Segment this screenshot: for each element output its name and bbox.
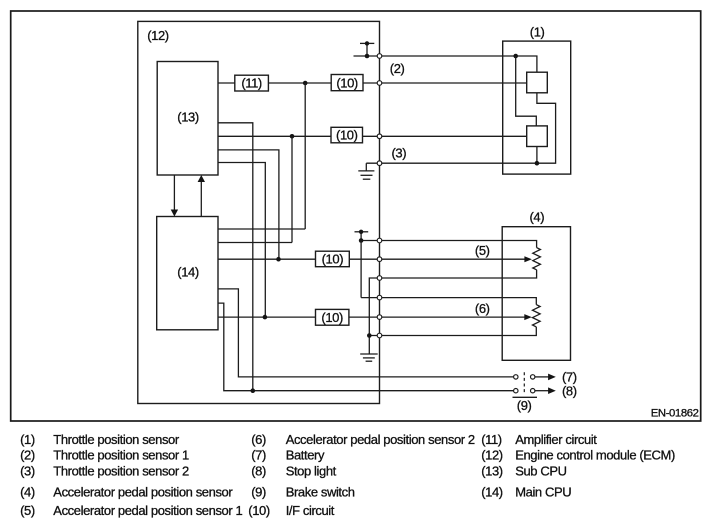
wire U14 to brake switch stoplight side — [218, 303, 514, 391]
wire U13 pin2 to stoplight net — [218, 123, 253, 391]
legend column 3 — [481, 432, 675, 499]
wire I/F d to pot2 wiper — [349, 314, 532, 320]
label (10) b — [336, 128, 358, 143]
svg-text:(13): (13) — [481, 464, 503, 479]
label (9) — [517, 398, 532, 413]
wire U13 pin3 to I/F b — [218, 135, 331, 137]
figure number EN-01862 — [651, 407, 699, 419]
svg-text:(12): (12) — [481, 448, 503, 463]
battery feed top wire — [354, 56, 537, 72]
wire junction down to U14 pin — [218, 83, 305, 229]
svg-text:(5): (5) — [475, 243, 490, 258]
svg-text:Throttle position sensor 1: Throttle position sensor 1 — [53, 448, 189, 463]
wire U13 pin5 down to I/F d net — [218, 163, 265, 318]
svg-text:(1): (1) — [20, 432, 35, 447]
battery feed lower wire — [361, 241, 536, 248]
svg-text:Engine control module (ECM): Engine control module (ECM) — [515, 448, 675, 463]
svg-text:I/F circuit: I/F circuit — [286, 503, 335, 518]
label (10) d — [321, 310, 343, 325]
node junction U13 pin3 / U14 — [290, 134, 295, 139]
label (10) a — [336, 75, 358, 90]
wire amplifier to I/F 1 — [268, 82, 331, 84]
ground symbol lower — [360, 354, 378, 361]
svg-text:(10): (10) — [336, 128, 358, 143]
svg-text:(12): (12) — [147, 28, 169, 43]
svg-text:(2): (2) — [20, 448, 35, 463]
node junction U13 net / wiper1 — [276, 257, 281, 262]
node junction amp/U14 — [303, 81, 308, 86]
brake switch underline — [513, 396, 538, 398]
node sensor1 ground — [535, 161, 540, 166]
I/F circuit U10c box — [316, 251, 350, 267]
svg-text:Throttle position sensor 2: Throttle position sensor 2 — [53, 464, 189, 479]
svg-text:(9): (9) — [517, 398, 532, 413]
amplifier circuit U11 box — [235, 75, 269, 91]
wire to stop light arrow — [535, 387, 556, 394]
svg-text:(14): (14) — [481, 485, 503, 500]
label (2) — [390, 61, 405, 76]
sub CPU U13 box — [157, 62, 218, 176]
outer border frame — [11, 11, 701, 421]
wire pot2 bottom to ground — [369, 327, 536, 336]
ECM connector pins upper — [377, 54, 382, 166]
wire element2 bottom to ground node — [536, 147, 538, 164]
wire U14 to I/F d — [218, 316, 316, 318]
potentiometer R1 zigzag — [533, 248, 541, 270]
label (5) — [475, 243, 490, 258]
wire U13 pin1 to amplifier — [218, 82, 235, 84]
wire I/F c to pot1 wiper — [349, 256, 532, 262]
label (10) c — [322, 252, 344, 267]
svg-text:Accelerator pedal position sen: Accelerator pedal position sensor 2 — [286, 432, 475, 447]
legend column 2 — [248, 432, 475, 518]
label (4) — [530, 210, 545, 225]
wire node down to element 2 top — [516, 56, 537, 126]
wire U13 pin4 down to I/F c net — [218, 150, 279, 259]
svg-text:(4): (4) — [530, 210, 545, 225]
svg-text:(11): (11) — [481, 432, 502, 447]
svg-text:(14): (14) — [177, 264, 199, 279]
throttle position sensor U1 box — [503, 41, 571, 174]
potentiometer R2 zigzag — [533, 305, 541, 327]
I/F circuit U10d box — [316, 309, 349, 325]
svg-text:(9): (9) — [251, 485, 266, 500]
svg-text:Main CPU: Main CPU — [515, 485, 571, 500]
ground symbol upper — [358, 163, 374, 179]
label (1) — [530, 24, 545, 39]
wire I/F a to throttle sensor element 1 — [363, 82, 527, 84]
label (7) — [562, 370, 577, 385]
wire to battery arrow — [535, 374, 556, 381]
engine control module U12 box — [138, 21, 380, 403]
label (6) — [475, 301, 490, 316]
wire U14 to brake switch battery side — [218, 289, 514, 377]
main CPU U14 box — [157, 217, 218, 330]
svg-text:(1): (1) — [530, 24, 545, 39]
battery symbol lower — [355, 230, 369, 243]
arrow U14 to U13 — [198, 175, 205, 217]
I/F circuit U10b box — [331, 127, 363, 143]
svg-text:(11): (11) — [241, 76, 262, 91]
svg-text:Amplifier circuit: Amplifier circuit — [515, 432, 597, 447]
I/F circuit U10a box — [331, 75, 363, 91]
node junction stoplight net — [251, 388, 256, 393]
svg-text:Battery: Battery — [286, 448, 325, 463]
svg-text:Accelerator pedal position sen: Accelerator pedal position sensor — [53, 485, 233, 500]
wire U14 to I/F c — [218, 258, 316, 260]
wire battery vertical to pot2 feed — [360, 241, 362, 298]
svg-text:(5): (5) — [20, 503, 35, 518]
label (3) — [392, 146, 407, 161]
label (11) — [241, 76, 262, 91]
svg-text:(2): (2) — [390, 61, 405, 76]
svg-text:(6): (6) — [475, 301, 490, 316]
svg-text:Stop light: Stop light — [286, 464, 337, 479]
wire I/F b to throttle sensor element 2 — [363, 135, 527, 137]
svg-text:(8): (8) — [562, 383, 577, 398]
label (12) — [147, 28, 169, 43]
wire element1 bottom wrap to ground node — [537, 93, 556, 163]
legend column 1 — [20, 432, 242, 518]
svg-text:Accelerator pedal position sen: Accelerator pedal position sensor 1 — [53, 503, 242, 518]
ECM connector pins lower — [377, 238, 382, 338]
wire pot1 bottom to ground — [369, 270, 536, 354]
brake switch S9 contacts — [514, 375, 535, 393]
battery symbol top — [360, 41, 374, 58]
svg-text:(7): (7) — [251, 448, 266, 463]
label (13) — [177, 110, 199, 125]
svg-text:(7): (7) — [562, 370, 577, 385]
node ground join — [367, 333, 372, 338]
svg-text:(4): (4) — [20, 485, 35, 500]
svg-text:EN-01862: EN-01862 — [651, 407, 699, 419]
arrow U13 to U14 — [171, 175, 178, 217]
label (14) — [177, 264, 199, 279]
node junction U13 net / wiper2 — [263, 315, 268, 320]
ground wire throttle sensor — [366, 162, 537, 164]
accelerator pedal position sensor U4 box — [502, 227, 570, 361]
brake switch dashed link — [523, 372, 525, 395]
svg-text:(10): (10) — [248, 503, 270, 518]
label (8) — [562, 383, 577, 398]
sensor element square 2 — [527, 126, 548, 147]
svg-text:(10): (10) — [321, 310, 343, 325]
svg-text:(13): (13) — [177, 110, 199, 125]
svg-text:Throttle position sensor: Throttle position sensor — [53, 432, 180, 447]
svg-text:Brake switch: Brake switch — [286, 485, 355, 500]
svg-text:(10): (10) — [336, 75, 358, 90]
svg-text:(8): (8) — [251, 464, 266, 479]
wire junction down to U14 — [218, 136, 292, 242]
node inside sensor 1 — [513, 54, 518, 59]
svg-text:(6): (6) — [251, 432, 266, 447]
svg-text:(3): (3) — [392, 146, 407, 161]
svg-text:(3): (3) — [20, 464, 35, 479]
wire pot2 feed — [361, 298, 536, 305]
svg-text:(10): (10) — [322, 252, 344, 267]
sensor element square 1 — [527, 72, 548, 93]
svg-text:Sub CPU: Sub CPU — [515, 464, 566, 479]
